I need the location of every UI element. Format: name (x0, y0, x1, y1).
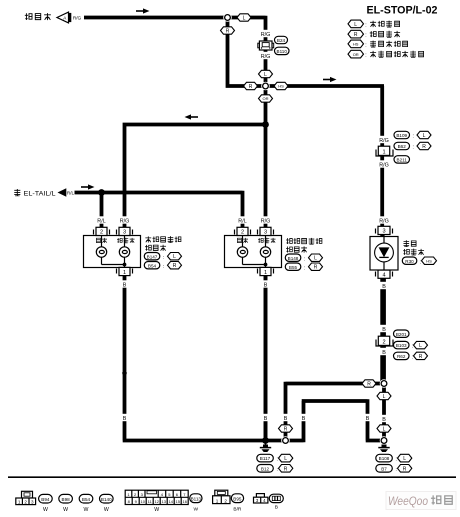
pass-through connector 2 (stop lamp column lower) (376, 336, 393, 346)
connector tag oval B201 (394, 330, 410, 337)
wire gap label R/L above left lamp pin 2 (95, 216, 109, 224)
splice dot D2 (98, 189, 105, 196)
connector tag oval B211 (394, 156, 410, 163)
ground tag oval B117 with L (257, 454, 293, 462)
svg-text:B: B (382, 417, 386, 423)
svg-text:R/G: R/G (261, 219, 271, 225)
right stop bulb (260, 236, 270, 268)
svg-text:2: 2 (100, 230, 103, 236)
svg-text:1: 1 (382, 150, 385, 156)
svg-text::: : (304, 265, 305, 271)
wire gap label B between L hexes (380, 415, 388, 423)
junction circle J2 (261, 82, 270, 91)
svg-text::: : (365, 22, 366, 28)
svg-text:R: R (422, 144, 426, 150)
page-in label "from previous page" (25, 13, 51, 20)
wire gap label R/G below connector B (259, 52, 273, 60)
svg-text:R/G: R/G (73, 16, 82, 21)
right lamp internal bus wire (243, 264, 266, 266)
left lamp tag oval B54 with R (144, 262, 181, 270)
svg-text:B140: B140 (101, 497, 112, 502)
hexagon tag L above J2 (259, 70, 273, 78)
legend row R : right-hand-drive models (348, 30, 400, 38)
footer oval connector B113 (190, 494, 202, 513)
arrow on lower-left feed (81, 184, 95, 189)
right lamp internal label stop lamp (258, 238, 276, 243)
svg-text:R: R (249, 84, 253, 90)
wire gap label R/G above connector B (259, 30, 273, 38)
svg-text:B94: B94 (41, 497, 50, 502)
svg-text:R: R (226, 29, 230, 35)
svg-text:L: L (423, 133, 426, 139)
hexagon tag L above J4 (377, 425, 391, 433)
arrow down on left ground drop (122, 366, 127, 380)
svg-text:R/G: R/G (379, 219, 389, 225)
footer oval connector B05 (269, 494, 283, 510)
svg-text:EL-STOP/L-02: EL-STOP/L-02 (367, 5, 438, 17)
svg-text:L: L (403, 456, 406, 462)
svg-text:14: 14 (168, 499, 173, 504)
ground tag oval B108 with L (376, 454, 412, 462)
left stop bulb (119, 236, 129, 268)
ground symbol below D3 (260, 444, 271, 453)
svg-text:L: L (383, 427, 386, 433)
footer connector F1 (3-pin) (16, 491, 36, 504)
svg-text::: : (413, 134, 414, 140)
page-out arrow triangle (58, 188, 67, 196)
svg-text:R/L: R/L (238, 219, 246, 225)
svg-text:B12: B12 (261, 466, 270, 471)
wire: middle lamp ground drop (264, 275, 268, 441)
legend row OR : without rear fog lamp switch (348, 50, 424, 58)
svg-text:R/G: R/G (261, 32, 271, 38)
svg-text:16: 16 (182, 499, 187, 504)
svg-text::: : (412, 344, 413, 350)
svg-text:B55: B55 (289, 265, 298, 270)
connector tag oval R62 with R (394, 352, 428, 360)
footer oval connector B4 (100, 494, 114, 513)
wire: left lamp ground drop and bottom run (123, 275, 266, 441)
connector tag oval B103 with L (394, 341, 428, 349)
svg-text:B: B (264, 416, 268, 422)
svg-text:R: R (419, 354, 423, 360)
high-mounted stop lamp tag oval R30 with HS (402, 257, 436, 265)
hexagon tag OR below J2 (259, 95, 273, 102)
footer connector F8 (2-pin) (213, 490, 230, 503)
wire gap label R/G above B-connector 1 (377, 136, 391, 144)
LED symbol (375, 235, 394, 271)
wire gap label B on left drop near bottom (121, 414, 129, 422)
svg-text:B62: B62 (398, 144, 407, 149)
pass-through connector 1 (stop lamp column) (376, 146, 393, 156)
svg-text:L: L (173, 254, 176, 260)
footer connector F6 (16-pin grid) (125, 490, 188, 513)
svg-text:15: 15 (175, 499, 180, 504)
footer oval connector B95 (231, 494, 243, 513)
svg-text:R30: R30 (405, 259, 414, 264)
svg-text:R: R (367, 382, 371, 388)
hexagon tag L below J3 (377, 392, 391, 400)
svg-text:B7: B7 (381, 466, 387, 471)
svg-text:3: 3 (264, 230, 267, 236)
footer connector F10 (pins 3 4) (254, 494, 268, 504)
svg-text:R62: R62 (397, 354, 406, 359)
svg-text:2: 2 (224, 498, 227, 503)
hexagon tag R left of J2 (244, 82, 258, 90)
svg-text:2: 2 (24, 499, 27, 504)
ground tag oval B12 with R (257, 465, 293, 473)
right lamp pin 3 (258, 227, 274, 235)
hexagon tag R above J5 (279, 425, 293, 433)
wire: branch from junction down and right (RHD route) (226, 19, 266, 88)
svg-text:R: R (403, 466, 407, 472)
hexagon tag L on top feed (237, 14, 251, 22)
left lamp internal junction dot (123, 263, 127, 267)
legend row HS : with rear spoiler (348, 40, 408, 48)
svg-text:R/G: R/G (379, 163, 389, 169)
arrow on main run (323, 77, 337, 82)
ground tag oval B7 with R (376, 465, 412, 473)
footer oval connector B54 (79, 494, 93, 513)
right tail bulb (237, 236, 247, 265)
svg-text:3: 3 (123, 230, 126, 236)
svg-text:13: 13 (161, 499, 166, 504)
wire: main run right to stop lamp column (266, 86, 385, 384)
svg-text:L: L (243, 16, 246, 22)
svg-text:1: 1 (216, 498, 219, 503)
right lamp internal junction dot (264, 263, 268, 267)
svg-text:4: 4 (382, 273, 385, 279)
svg-text:B: B (382, 284, 386, 290)
wire gap label B below left lamp pin 1 (121, 280, 129, 288)
hexagon tag HS right of J2 (274, 82, 288, 89)
svg-text:10: 10 (140, 499, 145, 504)
wire: J5 right jog up-over-down to J4 (286, 399, 385, 442)
svg-text::: : (420, 259, 421, 265)
svg-text:R/L: R/L (97, 219, 105, 225)
wire: top feed from page-in to corner (84, 16, 266, 86)
left lamp tag oval B147 with L (144, 253, 181, 261)
svg-text:B117: B117 (260, 456, 271, 461)
svg-text:B147: B147 (147, 254, 158, 259)
wire gap label B on middle drop near bottom (262, 414, 270, 422)
ground symbol below J4 (378, 445, 389, 453)
left trunk lid combination lamp box (84, 236, 141, 268)
svg-text:B113: B113 (191, 496, 202, 501)
svg-text:B: B (123, 283, 127, 289)
svg-text:R: R (354, 32, 358, 38)
svg-text:L: L (354, 22, 357, 28)
svg-text:B: B (123, 416, 127, 422)
wire gap label R/G above stop lamp pin 3 (377, 216, 391, 224)
wire: down from junction J2 through OR to middle column (264, 86, 268, 441)
high-mounted stop lamp pin 3 (376, 226, 393, 234)
svg-text:WeeQoo: WeeQoo (388, 496, 429, 508)
svg-text:L: L (284, 456, 287, 462)
svg-text::: : (365, 53, 366, 59)
svg-text:W: W (154, 507, 159, 513)
svg-text:B: B (275, 505, 278, 511)
svg-text:B108: B108 (379, 456, 390, 461)
wire: lower-left feed to middle lamp column (75, 191, 243, 229)
svg-text:B211: B211 (397, 158, 408, 163)
svg-text:1: 1 (18, 499, 21, 504)
svg-text:R: R (284, 427, 288, 433)
svg-text:B: B (284, 416, 288, 422)
wire: stop lamp B drop from pin4 to J4 (382, 275, 386, 441)
svg-text:OR: OR (353, 52, 359, 57)
junction circle J1 (223, 13, 232, 22)
page-out label "to EL-TAIL/L" (14, 189, 55, 197)
svg-text::: : (413, 145, 414, 151)
svg-text:2: 2 (382, 340, 385, 346)
junction circle J5 (281, 436, 290, 445)
wire gap label R/L above middle lamp pin 2 (236, 216, 250, 224)
svg-text:W: W (194, 507, 199, 513)
svg-text:B109: B109 (396, 133, 407, 138)
svg-text:HS: HS (353, 42, 359, 47)
connector tag oval B24 (275, 36, 288, 43)
svg-text::: : (163, 264, 164, 270)
svg-text:L: L (314, 256, 317, 262)
svg-text::: : (365, 42, 366, 48)
svg-text:B201: B201 (396, 332, 407, 337)
wire gap label R/G above left lamp pin 3 (118, 216, 132, 224)
svg-text:B: B (302, 416, 306, 422)
svg-text:W: W (43, 507, 48, 513)
wire gap label B on J5 drop (282, 414, 290, 422)
svg-text:B54: B54 (82, 497, 91, 502)
svg-text:R: R (284, 466, 288, 472)
wire gap label B on jog right drop (364, 414, 372, 422)
svg-text:R: R (314, 265, 318, 271)
wire gap label B on jog riser (300, 414, 308, 422)
wire gap label B below middle lamp pin 1 (262, 280, 270, 288)
svg-text:L: L (383, 394, 386, 400)
wire gap label R/G above middle lamp pin 3 (259, 216, 273, 224)
junction circle J3 (380, 379, 389, 388)
svg-text::: : (396, 457, 397, 463)
svg-text::: : (396, 467, 397, 473)
junction circle J4 (380, 436, 389, 445)
svg-text:B/R: B/R (233, 507, 242, 513)
high-mounted stop lamp name text (404, 240, 417, 246)
svg-text:B: B (382, 327, 386, 333)
hexagon tag R below J1 (221, 27, 235, 35)
svg-text:R/G: R/G (261, 54, 271, 60)
svg-text:B148: B148 (288, 256, 299, 261)
svg-text::: : (163, 255, 164, 261)
svg-text:B98: B98 (62, 497, 71, 502)
svg-text:OR: OR (263, 96, 269, 101)
arrow on top feed wire (136, 8, 150, 13)
connector tag oval B110 (275, 47, 290, 54)
svg-text:12: 12 (154, 499, 159, 504)
right lamp tag oval B55 with R (285, 263, 322, 271)
page-in connector triangle A (57, 12, 71, 23)
svg-text:3: 3 (31, 499, 34, 504)
svg-text:B110: B110 (277, 49, 288, 54)
svg-text:HS: HS (426, 258, 432, 263)
svg-text:B: B (382, 350, 386, 356)
svg-text::: : (304, 256, 305, 262)
high-mounted stop lamp box (370, 237, 398, 271)
watermark WeeQoo (386, 492, 456, 510)
svg-text:R/L: R/L (67, 191, 75, 196)
wire: branch left at y=124.5 (125, 125, 266, 230)
svg-text::: : (277, 467, 278, 473)
svg-text:B24: B24 (277, 38, 286, 43)
svg-text::: : (277, 457, 278, 463)
wire gap label B above B-connector 2 (380, 325, 388, 333)
left lamp name text (145, 236, 181, 242)
footer oval connector B98 (59, 494, 73, 513)
connector tag oval B62 with R (394, 142, 431, 150)
svg-text:R/G: R/G (120, 219, 130, 225)
left tail bulb (96, 236, 106, 265)
left lamp pin 3 (117, 227, 133, 235)
svg-text:W: W (63, 507, 68, 513)
wire gap label B below stop lamp pin 4 (380, 282, 388, 290)
left lamp internal label tail lamp (96, 238, 107, 243)
svg-text:B54: B54 (148, 263, 157, 268)
svg-text::: : (365, 33, 366, 39)
connector tag oval B109 with L (394, 131, 431, 139)
svg-text:W: W (84, 507, 89, 513)
svg-text:R/G: R/G (379, 138, 389, 144)
footer oval connector B94 (39, 494, 53, 513)
svg-text:B95: B95 (233, 496, 242, 501)
svg-text:1: 1 (264, 270, 267, 276)
svg-text:W: W (104, 507, 109, 513)
left lamp pin 2 (94, 227, 110, 235)
wire: D3 to J5 segment (266, 439, 286, 443)
svg-text:HS: HS (278, 84, 284, 89)
svg-text:L: L (264, 72, 267, 78)
svg-text:B: B (264, 283, 268, 289)
svg-text:1: 1 (123, 270, 126, 276)
svg-text:L: L (419, 343, 422, 349)
wire: J3 branch left then down to J5 (286, 382, 383, 441)
wire: drop from splice D2 to left lamp pin 2 (100, 193, 104, 230)
svg-text:2: 2 (241, 230, 244, 236)
svg-text::: : (412, 355, 413, 361)
left lamp internal bus wire (102, 264, 125, 266)
splice dot D1 (262, 121, 269, 128)
right lamp tag oval B148 with L (285, 254, 322, 262)
wire gap label R/G below B-connector 1 (377, 160, 391, 168)
right lamp internal label tail lamp (237, 238, 248, 243)
hexagon tag R on J3 left branch (362, 380, 376, 388)
wire gap label B below B-connector 2 (380, 348, 388, 356)
right trunk lid combination lamp box (225, 236, 282, 268)
right lamp pin 2 (235, 227, 251, 235)
svg-text:R: R (173, 263, 177, 269)
splice dot D3 (262, 437, 269, 444)
svg-text:B103: B103 (396, 343, 407, 348)
svg-text:EL-TAIL/L: EL-TAIL/L (24, 190, 56, 197)
svg-text:B: B (366, 416, 370, 422)
svg-text:3: 3 (382, 229, 385, 235)
footer separator line (8, 476, 456, 478)
arrow on y=124.5 wire pointing left (185, 114, 199, 119)
left lamp pin 1 (117, 267, 133, 275)
legend row L : left-hand-drive models (348, 20, 400, 28)
high-mounted stop lamp pin 4 (376, 270, 393, 278)
pass-through connector B (top) (258, 41, 274, 50)
right lamp name text (286, 238, 322, 244)
right lamp pin 1 (258, 267, 274, 275)
left lamp internal label stop lamp (117, 238, 135, 243)
